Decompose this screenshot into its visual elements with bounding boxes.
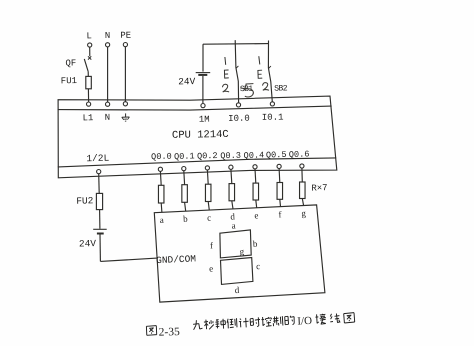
svg-text:FU2: FU2	[76, 195, 94, 206]
svg-text:g: g	[301, 208, 306, 218]
pushbutton SB2 contact tick	[268, 66, 271, 69]
svg-text:a: a	[160, 215, 164, 225]
svg-text:c: c	[207, 213, 211, 223]
handwritten 5 over SB1	[241, 84, 254, 97]
terminal circle I0.1	[270, 102, 274, 106]
svg-text:1M: 1M	[199, 115, 210, 125]
terminal circle N	[106, 43, 110, 47]
resistor R d	[229, 184, 235, 201]
svg-text:2-35: 2-35	[159, 326, 181, 339]
svg-text:e: e	[254, 210, 258, 220]
terminal circle L	[88, 43, 92, 47]
terminal circle Q0.2	[205, 166, 209, 170]
svg-text:Q0.2: Q0.2	[197, 151, 218, 162]
CPU box top separator line	[58, 106, 331, 110]
wire 1/2L to FU2	[98, 174, 101, 194]
wire Q to resistor R g	[301, 168, 303, 182]
svg-text:f: f	[278, 209, 281, 219]
wire N vertical	[107, 47, 109, 102]
resistor R e	[253, 183, 258, 200]
terminal circle I0.0	[236, 103, 240, 107]
wire battery to 1M	[202, 76, 204, 103]
svg-text:L1: L1	[82, 113, 93, 123]
terminal circle 1M	[201, 104, 205, 108]
resistor R g	[300, 182, 306, 199]
battery G1 wire top	[202, 44, 204, 71]
battery G2 plates	[93, 228, 107, 230]
caption figure word	[146, 325, 156, 328]
pushbutton SB1 actuator E	[224, 70, 228, 78]
wire Q to resistor R e	[254, 169, 257, 183]
svg-text:Q0.0: Q0.0	[151, 152, 172, 163]
svg-text:SB2: SB2	[274, 84, 288, 93]
wire Q to resistor R c	[206, 170, 209, 184]
wire resistor R b to display	[185, 202, 186, 211]
wire FU1 to L1 terminal	[87, 89, 89, 102]
svg-text:L: L	[86, 31, 92, 41]
ground symbol PE	[125, 113, 127, 117]
svg-text:QF: QF	[65, 58, 76, 68]
pushbutton SB2 wire and moving contact	[268, 41, 272, 102]
breaker QF contact cross	[88, 56, 91, 59]
svg-text:I/O: I/O	[297, 315, 312, 328]
svg-text:Q0.1: Q0.1	[174, 151, 195, 162]
terminal circle Q0.0	[158, 167, 162, 171]
wire PE vertical	[124, 47, 126, 102]
handwritten 2 at SB2	[263, 83, 269, 91]
wire resistor R a to display	[160, 203, 163, 212]
wire Q to resistor R d	[230, 169, 233, 183]
svg-text:g: g	[239, 246, 244, 256]
fuse FU1	[86, 76, 92, 88]
wire Q to resistor R b	[183, 171, 186, 185]
pushbutton SB1 contact tick	[236, 66, 239, 69]
resistor R a	[158, 185, 164, 203]
PLC CPU 1214C box outline	[58, 96, 337, 178]
svg-text:f: f	[210, 240, 213, 250]
terminal circle Q0.4	[253, 165, 257, 169]
svg-text:I0.0: I0.0	[228, 114, 250, 124]
svg-text:a: a	[231, 220, 235, 230]
wire QF to FU1	[87, 71, 89, 76]
pushbutton SB2 actuator E	[258, 70, 262, 78]
terminal circle Q0.3	[229, 165, 233, 169]
svg-text:Q0.3: Q0.3	[220, 151, 241, 162]
terminal circle Q0.5	[277, 164, 281, 168]
terminal circle PE input	[123, 102, 127, 106]
svg-text:N: N	[105, 31, 111, 41]
svg-text:e: e	[209, 263, 213, 273]
pushbutton SB1 wire and moving contact	[235, 41, 238, 103]
svg-text:Q0.6: Q0.6	[289, 149, 310, 160]
wire L to QF	[89, 47, 91, 56]
svg-text:GND/COM: GND/COM	[156, 253, 197, 266]
seven-segment display box outline	[154, 205, 325, 302]
terminal circle N input	[106, 102, 110, 106]
wire Q to resistor R f	[278, 169, 281, 183]
svg-text:PE: PE	[120, 31, 131, 41]
svg-text:N: N	[105, 113, 111, 123]
terminal circle Q0.1	[182, 167, 186, 171]
svg-text:24V: 24V	[79, 238, 97, 249]
battery G1 plates	[196, 72, 211, 74]
svg-text:c: c	[256, 261, 260, 271]
terminal circle Q0.6	[300, 164, 304, 168]
svg-text:Q0.4: Q0.4	[243, 150, 264, 161]
terminal circle 1/2L	[97, 170, 101, 174]
svg-text:d: d	[235, 285, 240, 295]
resistor R c	[205, 184, 211, 201]
wire resistor R c to display	[208, 202, 209, 211]
svg-text:CPU 1214C: CPU 1214C	[172, 129, 229, 142]
wire resistor R e to display	[255, 200, 258, 208]
terminal circle L1	[87, 102, 91, 106]
wire resistor R g to display	[302, 199, 303, 206]
svg-text:FU1: FU1	[61, 76, 77, 86]
svg-text:b: b	[183, 214, 188, 224]
terminal circle PE	[123, 43, 127, 47]
wire FU2 to battery G2	[99, 210, 101, 229]
wire to GND/COM	[100, 258, 157, 261]
breaker QF blade	[84, 59, 88, 71]
svg-text:b: b	[253, 239, 258, 249]
resistor R f	[277, 183, 283, 200]
caption wiring-diagram words	[316, 314, 319, 323]
wire 24V supply rail	[203, 43, 269, 46]
resistor R b	[182, 185, 188, 203]
CPU box bottom separator line	[58, 158, 336, 167]
svg-text:I0.1: I0.1	[262, 113, 284, 123]
wire resistor R d to display	[232, 201, 233, 209]
pushbutton SB1 actuator stem	[224, 57, 227, 65]
seven-segment lower cell	[221, 258, 253, 285]
wire Q to resistor R a	[159, 171, 162, 185]
caption text 9-second countdown timer control	[195, 320, 197, 325]
pushbutton SB2 actuator stem	[259, 56, 260, 64]
fuse FU2	[96, 193, 102, 209]
svg-text:Q0.5: Q0.5	[266, 150, 287, 161]
wire resistor R f to display	[279, 199, 282, 206]
wire battery G2 down	[99, 234, 101, 261]
svg-text:R×7: R×7	[311, 183, 328, 194]
svg-text:1/2L: 1/2L	[86, 153, 109, 165]
handwritten 2 at SB1	[223, 84, 229, 92]
seven-segment upper cell	[220, 230, 251, 258]
svg-text:24V: 24V	[178, 76, 196, 87]
